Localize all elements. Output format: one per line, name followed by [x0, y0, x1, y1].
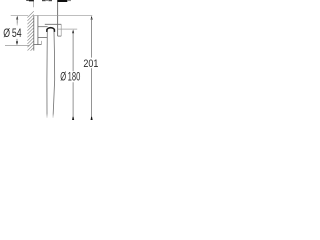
top extension line (left segment, Ø54 top reference) [11, 15, 29, 17]
rosette face [37, 16, 39, 45]
201 dimension top arrowhead [91, 16, 93, 20]
Ø54 bottom extension line [5, 44, 30, 46]
201 dimension line upper stem [91, 18, 93, 58]
201 dimension line lower stem [91, 68, 93, 117]
Ø180 dimension line upper stem [72, 32, 74, 71]
svg-text:Ø 54: Ø 54 [3, 28, 22, 40]
Ø180 dimension bottom arrowhead (cut by crop) [72, 117, 74, 120]
46 dimension left arrowhead (cut by crop) [26, 0, 34, 1]
46 dimension right arrowhead + line tail (cut by crop) [57, 0, 71, 2]
46 right extension line + holder front bar left edge [57, 0, 59, 36]
svg-text:201: 201 [83, 58, 98, 70]
Ø54 dimension upper arrowhead [16, 16, 18, 20]
holder band top edge [45, 23, 62, 25]
rosette bottom edge [34, 44, 42, 46]
Ø54 dimension upper stem [16, 18, 18, 24]
Ø54 dimension lower stem [16, 39, 18, 43]
46 left extension line [33, 0, 35, 7]
ring tube right side [53, 32, 55, 119]
holder front bar right edge [60, 24, 62, 36]
top extension line (right segment, 201 top reference) [34, 15, 93, 17]
svg-text:Ø 180: Ø 180 [60, 72, 80, 84]
holder front bar bottom edge [58, 35, 62, 37]
Ø54 dimension lower arrowhead [16, 41, 18, 45]
46 dimension text bottom slivers (cut by crop) [42, 0, 52, 1]
201 dimension bottom arrowhead (cut by crop) [91, 117, 93, 120]
holder arm bottom edge [38, 37, 48, 39]
ring tube top arch [47, 28, 55, 32]
wall face [33, 16, 35, 51]
ring tube left side [46, 32, 48, 119]
Ø180 dimension line lower stem [72, 82, 74, 117]
step under holder [40, 41, 42, 45]
holder band bottom edge [38, 26, 48, 28]
Ø180 top extension line [58, 28, 63, 30]
wall hatching [27, 11, 33, 54]
Ø180 dimension line upper arrowhead [72, 30, 74, 34]
